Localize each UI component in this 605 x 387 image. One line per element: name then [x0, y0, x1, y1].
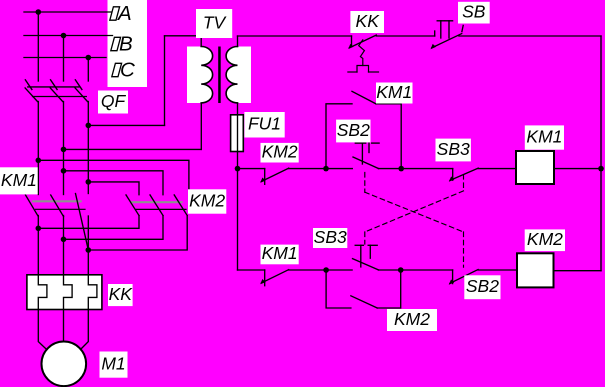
node phase B tap dot TV [61, 147, 67, 153]
svg-text:SB2: SB2 [466, 276, 499, 296]
node KM1 branch dot right [398, 166, 404, 172]
wire KM2 out3 to node C [88, 216, 187, 251]
wire column C QF to KM1 [87, 102, 89, 194]
svg-text:M1: M1 [101, 353, 125, 373]
wire KM2 out2 to node B [64, 216, 164, 240]
linkage dashed SB2 to SB2NC [365, 173, 464, 268]
wire KM2 branch rail segment 3 [378, 269, 452, 271]
node KM2 branch dot left [323, 267, 329, 273]
label KM2 coil [525, 229, 565, 251]
wire KM2 branch rail segment 2 [289, 269, 352, 271]
transformer TV core [218, 47, 221, 104]
wire phase C line [24, 57, 106, 59]
wire motor lead 1 [38, 310, 46, 350]
node A phase label panel [108, 0, 148, 87]
svg-text:FU1: FU1 [248, 114, 281, 134]
svg-text:SB2: SB2 [337, 120, 370, 140]
node phase C glyph [112, 63, 122, 76]
contactor KM1 main pole1 blade [26, 195, 39, 217]
label KM1 aux NO [376, 83, 413, 104]
svg-text:KM2: KM2 [189, 190, 225, 210]
wire phase B line [24, 35, 113, 37]
wire KM1 pole3 bottom stub [87, 216, 89, 275]
fuse FU1 [231, 115, 244, 152]
wire QF pole2 top stub [63, 36, 65, 82]
label SB3 button [313, 228, 347, 248]
node KM1 branch dot left [323, 166, 329, 172]
label QF [98, 91, 128, 114]
button SB3 start NO [353, 245, 379, 270]
wire KM2 out1 to node A [38, 216, 139, 229]
svg-text:KM1: KM1 [526, 126, 562, 146]
node phase B glyph [111, 37, 121, 50]
wire KM2 feed phase A [38, 160, 189, 194]
transformer TV secondary winding arcs [226, 47, 237, 103]
node phase A tap dot [36, 158, 42, 164]
label KM1 aux NC [261, 245, 299, 265]
wire KM2 feed phase B [64, 171, 164, 195]
wire KM1 branch rail segment 2 [289, 168, 353, 170]
wire TV primary bottom lead [200, 103, 202, 149]
wire KM1 pole1 bottom stub [37, 216, 39, 275]
contact KM1 aux NC interlock [260, 270, 289, 286]
node KM2 branch dot right [398, 267, 404, 273]
wire FU1 through-wire [237, 115, 239, 152]
label SB3 NC [436, 139, 471, 162]
wire column B QF to KM1 [63, 102, 65, 195]
label KM1 main [0, 167, 38, 194]
contactor KM1 linkage bar gray [33, 200, 81, 202]
breaker QF linkage bar lower [33, 96, 87, 98]
contactor KM1 main pole2 blade [51, 195, 64, 217]
wire TV primary feed C vertical riser [164, 36, 166, 126]
label FU1 [244, 112, 284, 138]
relay KK heater box [27, 275, 102, 310]
coil KM2 [517, 253, 554, 287]
contactor KM2 linkage line black [136, 208, 187, 210]
wire KM2 branch rail segment 1 [238, 269, 265, 271]
wire phase A line [24, 11, 113, 13]
relay KK heater element 3 [88, 275, 97, 310]
breaker QF pole3 [75, 80, 87, 102]
node control left dot [235, 166, 241, 172]
wire top rail segment 2 [376, 35, 434, 37]
contactor KM2 main pole2 blade [150, 195, 163, 216]
wire motor lead 3 [81, 310, 89, 350]
label M1 [100, 352, 128, 378]
node right rail dot [598, 166, 604, 172]
contact KM2 aux NO holding [326, 270, 401, 308]
label KM2 aux NO [387, 309, 437, 331]
wire TV primary top horizontal [165, 35, 202, 37]
wire KM2 branch rail segment 4 [478, 269, 517, 271]
contact KM2 aux NC interlock [260, 168, 289, 184]
wire motor lead 2 [63, 310, 65, 343]
motor M1 circle [42, 342, 87, 387]
wire top rail segment 3 [459, 35, 601, 37]
svg-text:KM2: KM2 [527, 229, 563, 249]
svg-text:C: C [120, 58, 135, 81]
transformer TV primary winding arcs [201, 47, 212, 103]
svg-text:SB3: SB3 [314, 227, 347, 247]
svg-text:KM1: KM1 [376, 82, 412, 102]
svg-text:KM1: KM1 [262, 243, 298, 263]
contact KK thermal NC gap ticks [348, 35, 379, 72]
svg-text:KK: KK [356, 11, 381, 31]
label KM2 main [188, 189, 226, 213]
node C junction dot [86, 55, 92, 61]
wire KM1 branch rail segment 4 [478, 168, 516, 170]
svg-text:KM1: KM1 [1, 170, 37, 190]
breaker QF linkage bar upper [28, 86, 79, 88]
node KM1 out A dot [36, 226, 42, 232]
label KK relay [108, 284, 133, 306]
svg-text:B: B [119, 32, 133, 55]
node phase B tap dot KM2 [61, 168, 67, 174]
svg-text:KK: KK [109, 284, 134, 304]
contactor KM2 linkage bar gray [132, 201, 182, 203]
wire right rail vertical [600, 36, 602, 271]
label KM1 coil [525, 125, 564, 149]
wire top rail segment 1 [238, 35, 352, 37]
svg-text:KM2: KM2 [262, 142, 298, 162]
button SB stop NC [431, 21, 464, 49]
contact SB3 NC interlock in KM1 branch [449, 168, 478, 182]
label SB2 button [336, 120, 370, 143]
svg-text:A: A [116, 2, 132, 25]
contactor KM2 main pole3 blade [174, 195, 187, 216]
relay KK heater element 2 [64, 275, 73, 310]
label KM2 aux NC [261, 143, 299, 163]
wire TV primary feed B horizontal [64, 148, 202, 150]
wire KM2 coil to right rail [554, 270, 602, 272]
wire KM1 coil to right rail [554, 168, 601, 170]
breaker QF pole1 [25, 80, 37, 102]
button SB2 start NO [353, 143, 379, 168]
breaker QF pole2 [50, 80, 62, 102]
wire QF pole3 top stub [87, 58, 89, 82]
label TV [196, 9, 232, 38]
wire TV secondary top lead to rail [237, 36, 239, 47]
wire KM1 branch rail segment 1 [238, 168, 265, 170]
coil KM1 [516, 151, 554, 184]
label SB [458, 2, 490, 24]
wire TV secondary bottom lead [237, 103, 239, 169]
wire control left vertical [237, 169, 239, 270]
contactor KM1 linkage line black [36, 208, 86, 210]
node A junction dot [36, 9, 42, 15]
svg-text:TV: TV [203, 12, 228, 32]
contact SB2 NC interlock in KM2 branch [449, 270, 478, 285]
wire column A QF to KM1 [37, 102, 39, 195]
svg-text:QF: QF [101, 91, 127, 111]
relay KK heater element 1 [38, 275, 47, 310]
svg-text:KM2: KM2 [394, 309, 430, 329]
svg-text:SB3: SB3 [437, 139, 470, 159]
node phase A glyph [110, 7, 120, 20]
node B junction dot [61, 33, 67, 39]
wire TV primary feed C horizontal [88, 124, 164, 126]
wire KM1 pole2 bottom stub [63, 216, 65, 275]
transformer TV primary winding body [187, 47, 203, 104]
linkage dashed SB3NC to SB3 [365, 175, 464, 244]
contact KM1 aux NO holding [326, 91, 401, 168]
node KM1 out B dot [61, 237, 67, 243]
wire KM1 branch rail segment 3 [378, 168, 452, 170]
wire KM2 feed phase C [88, 182, 139, 195]
contactor KM1 main pole3 blade long [76, 194, 89, 250]
contactor KM2 main pole1 blade [126, 195, 139, 216]
node phase C tap dot KM2 [86, 179, 92, 185]
label SB2 NC [464, 275, 500, 299]
node phase C tap dot TV [86, 123, 92, 129]
wire QF pole1 top stub [37, 12, 39, 81]
wire TV primary top lead [200, 36, 202, 47]
node KM1 out C dot [86, 247, 92, 253]
label KK contact [350, 11, 384, 33]
svg-text:SB: SB [462, 2, 486, 22]
transformer TV secondary winding body [236, 47, 251, 104]
